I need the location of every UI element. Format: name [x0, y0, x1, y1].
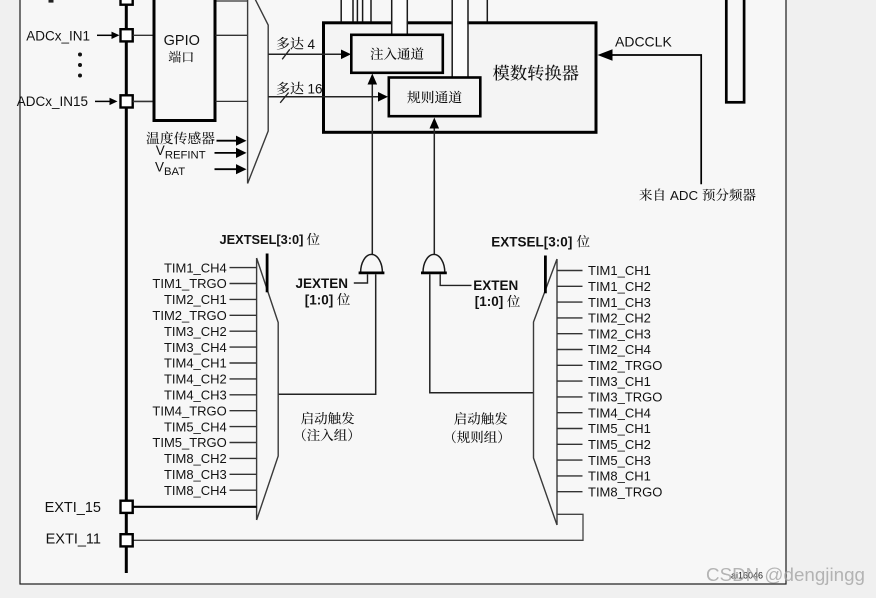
svg-text:TIM5_CH3: TIM5_CH3	[588, 453, 651, 468]
wire pin to GPIO	[133, 100, 153, 102]
svg-text:ADCx_IN1: ADCx_IN1	[26, 29, 90, 44]
wire TIM2_CH1 to mux	[230, 298, 257, 300]
svg-text:EXTI_15: EXTI_15	[45, 500, 101, 516]
wire TIM4_CH1 to mux	[230, 362, 257, 364]
wire injected mux output to gate	[278, 274, 376, 394]
pin EXTI_11	[121, 534, 133, 546]
wire TIM5_CH4 to mux	[230, 426, 257, 428]
svg-text:TIM2_CH4: TIM2_CH4	[588, 342, 651, 357]
svg-text:ADC: ADC	[670, 188, 698, 203]
wire regular mux output to gate	[430, 274, 534, 393]
wire mux to TIM1_CH3	[557, 301, 583, 303]
label 启动触发（规则组） trigger (regular group)	[454, 412, 507, 425]
svg-text:TIM5_TRGO: TIM5_TRGO	[152, 435, 226, 450]
ADC 模数转换器 box	[324, 23, 597, 133]
wire injected trigger (gate to injected channels)	[371, 83, 373, 255]
wire TIM3_CH2 to mux	[230, 330, 257, 332]
wire mux to TIM2_CH4	[557, 349, 583, 351]
wire mux to TIM1_CH2	[557, 285, 583, 287]
trigger gate (injected)	[361, 254, 383, 272]
pin ADCx_IN1	[121, 29, 133, 41]
wire mux to TIM2_CH3	[557, 333, 583, 335]
wire TIM4_TRGO to mux	[230, 410, 257, 412]
arrow 温度传感器 into mux	[217, 140, 238, 142]
svg-text:TIM5_CH1: TIM5_CH1	[588, 421, 651, 436]
svg-text:TIM2_CH3: TIM2_CH3	[588, 326, 651, 341]
svg-text:ADCx_IN15: ADCx_IN15	[17, 94, 88, 109]
arrow into pin ADCx_IN15	[95, 100, 111, 102]
analog input mux	[248, 0, 269, 184]
svg-text:TIM8_TRGO: TIM8_TRGO	[588, 484, 662, 499]
wire TIM8_CH4 to mux	[230, 489, 257, 491]
svg-text:TIM2_TRGO: TIM2_TRGO	[152, 308, 226, 323]
svg-text:4: 4	[308, 37, 316, 52]
svg-text:TIM8_CH2: TIM8_CH2	[164, 451, 227, 466]
svg-text:TIM1_CH2: TIM1_CH2	[588, 279, 651, 294]
pin ADCx_IN15	[121, 95, 133, 107]
label 启动触发（注入组） trigger (injected group)	[301, 412, 354, 425]
svg-text:EXTSEL[3:0]: EXTSEL[3:0]	[491, 234, 572, 249]
svg-text:ADCCLK: ADCCLK	[615, 34, 672, 50]
svg-text:TIM1_CH1: TIM1_CH1	[588, 263, 651, 278]
svg-text:TIM2_TRGO: TIM2_TRGO	[588, 358, 662, 373]
arrow VREFINT into mux	[215, 152, 238, 154]
svg-text:TIM4_TRGO: TIM4_TRGO	[152, 403, 226, 418]
wire GPIO to mux (IN1)	[216, 34, 248, 36]
wire mux to TIM4_CH4	[557, 412, 583, 414]
arrow into pin ADCx_IN1	[97, 34, 113, 36]
wire TIM4_CH3 to mux	[230, 394, 257, 396]
wire mux to TIM3_TRGO	[557, 396, 583, 398]
label 多达 4 (up to 4)	[277, 37, 304, 50]
label fragment (cut)	[49, 0, 54, 3]
wire mux to TIM2_TRGO	[557, 364, 583, 366]
svg-text:CSDN @dengjingg: CSDN @dengjingg	[706, 564, 865, 585]
pin EXTI_15	[121, 501, 133, 513]
svg-text:TIM5_CH2: TIM5_CH2	[588, 437, 651, 452]
wire ADCCLK into ADC box	[611, 55, 701, 184]
wire TIM5_TRGO to mux	[230, 442, 257, 444]
svg-text:TIM1_CH4: TIM1_CH4	[164, 260, 227, 275]
svg-text:TIM8_CH1: TIM8_CH1	[588, 469, 651, 484]
wire ADCx_IN0 to GPIO	[216, 0, 248, 2]
arrow VBAT into mux	[215, 168, 238, 170]
wire mux to TIM3_CH1	[557, 380, 583, 382]
GPIO port box	[154, 0, 215, 121]
bus wires to top (cropped)	[341, 0, 487, 22]
wire mux to TIM5_CH1	[557, 428, 583, 430]
trigger gate (regular)	[423, 254, 445, 272]
svg-text:TIM5_CH4: TIM5_CH4	[164, 419, 227, 434]
data bus bar (cropped)	[726, 0, 744, 102]
svg-text:TIM3_CH4: TIM3_CH4	[164, 340, 227, 355]
wide bus channel into injected channels	[392, 0, 408, 36]
svg-text:TIM4_CH4: TIM4_CH4	[588, 405, 651, 420]
regular channels box 规则通道	[389, 78, 481, 117]
wire GPIO to mux (IN15)	[216, 100, 248, 102]
wire pin to GPIO	[133, 34, 153, 36]
wire TIM4_CH2 to mux	[230, 378, 257, 380]
bus-width slash	[282, 49, 290, 59]
svg-text:EXTI_11: EXTI_11	[46, 531, 101, 547]
wire EXTI_15 to injected mux	[133, 506, 257, 508]
injected trigger mux trapezoid	[257, 258, 279, 520]
label 来自 ADC 预分频器 (from ADC prescaler)	[639, 189, 664, 201]
wire mux to TIM5_CH2	[557, 443, 583, 445]
svg-text:TIM3_CH1: TIM3_CH1	[588, 374, 651, 389]
pin ADCx_IN0 (cut off at top)	[121, 0, 133, 5]
wire TIM1_TRGO to mux	[230, 283, 257, 285]
JEXTSEL select bar	[266, 254, 269, 293]
wire JEXTEN to gate	[354, 274, 368, 283]
label 温度传感器 (temperature sensor)	[147, 131, 215, 144]
svg-text:TIM8_CH3: TIM8_CH3	[164, 467, 227, 482]
svg-text:TIM3_CH2: TIM3_CH2	[164, 324, 227, 339]
wire EXTI_11 to regular mux	[133, 514, 583, 540]
svg-text:TIM2_CH2: TIM2_CH2	[588, 311, 651, 326]
wire TIM3_CH4 to mux	[230, 346, 257, 348]
wire mux to TIM5_CH3	[557, 459, 583, 461]
wire EXTEN to gate	[440, 274, 471, 285]
injected channels box 注入通道	[351, 35, 443, 73]
wire mux to injected channels (up to 4)	[268, 53, 342, 55]
svg-text:JEXTSEL[3:0]: JEXTSEL[3:0]	[220, 232, 304, 247]
label 多达 16 (up to 16)	[277, 82, 304, 95]
wire TIM2_TRGO to mux	[230, 314, 257, 316]
wire mux to TIM8_CH1	[557, 475, 583, 477]
chip pin rail wire	[125, 0, 128, 573]
svg-text:TIM8_CH4: TIM8_CH4	[164, 483, 227, 498]
wire TIM8_CH2 to mux	[230, 457, 257, 459]
wide bus channel into regular channels	[452, 0, 468, 78]
wire mux to regular channels (up to 16)	[268, 96, 379, 98]
wire TIM8_CH3 to mux	[230, 473, 257, 475]
wire mux to TIM1_CH1	[557, 270, 583, 272]
svg-text:TIM1_TRGO: TIM1_TRGO	[152, 276, 226, 291]
ellipsis dots	[78, 53, 82, 57]
svg-text:16: 16	[308, 82, 323, 97]
wire regular trigger (gate to regular channels)	[433, 127, 435, 255]
svg-text:TIM2_CH1: TIM2_CH1	[164, 292, 227, 307]
svg-text:TIM1_CH3: TIM1_CH3	[588, 295, 651, 310]
svg-text:TIM4_CH2: TIM4_CH2	[164, 372, 227, 387]
wire mux to TIM8_TRGO	[557, 491, 583, 493]
svg-text:TIM4_CH1: TIM4_CH1	[164, 356, 227, 371]
svg-text:EXTEN: EXTEN	[473, 278, 518, 293]
svg-text:[1:0]: [1:0]	[475, 294, 504, 309]
wire TIM1_CH4 to mux	[230, 267, 257, 269]
svg-text:JEXTEN: JEXTEN	[296, 276, 349, 291]
svg-text:GPIO: GPIO	[164, 33, 200, 49]
EXTSEL select bar	[544, 256, 547, 294]
svg-text:TIM3_TRGO: TIM3_TRGO	[588, 390, 662, 405]
label 模数转换器 (A/D converter)	[493, 65, 579, 81]
svg-text:TIM4_CH3: TIM4_CH3	[164, 388, 227, 403]
regular trigger mux trapezoid	[534, 259, 558, 525]
svg-text:[1:0]: [1:0]	[305, 292, 334, 307]
wire mux to TIM2_CH2	[557, 317, 583, 319]
bus-width slash	[280, 93, 288, 103]
